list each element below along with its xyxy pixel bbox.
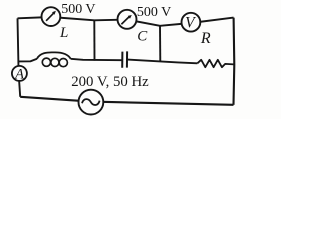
resistor R zigzag <box>197 60 234 67</box>
svg-text:500 V: 500 V <box>137 5 171 20</box>
svg-text:V: V <box>185 14 196 31</box>
svg-text:R: R <box>200 30 211 47</box>
wire: left vertical (through ammeter) <box>18 18 21 97</box>
wire: bottom bus through AC source <box>20 97 233 105</box>
ammeter A <box>12 66 27 82</box>
voltmeter V2 across C <box>118 10 137 29</box>
wire: top bus through three voltmeters <box>18 17 234 26</box>
svg-text:500 V: 500 V <box>61 2 95 17</box>
inductor L loop 3 <box>59 59 67 67</box>
wire: right vertical <box>232 18 235 105</box>
wire: middle bus from inductor to capacitor <box>71 59 122 60</box>
inductor L loop 1 <box>42 58 50 66</box>
wire: junction drop from node between V1 and V2 <box>93 20 95 60</box>
wire: middle bus left segment to inductor <box>18 59 37 62</box>
voltmeter V3 across R <box>182 13 201 32</box>
wire: junction drop from node between V2 and V3 <box>159 26 161 62</box>
wire: middle bus from capacitor to resistor <box>128 60 198 64</box>
svg-text:A: A <box>14 66 24 82</box>
inductor L loop 2 <box>51 58 59 66</box>
inductor L coil arch <box>37 52 71 58</box>
svg-text:200 V, 50 Hz: 200 V, 50 Hz <box>71 74 149 90</box>
svg-text:C: C <box>137 28 148 44</box>
capacitor C left plate <box>121 52 123 68</box>
voltmeter V1 across L <box>42 7 61 26</box>
svg-text:L: L <box>59 25 68 41</box>
AC source <box>79 90 104 115</box>
capacitor C right plate <box>126 51 128 67</box>
